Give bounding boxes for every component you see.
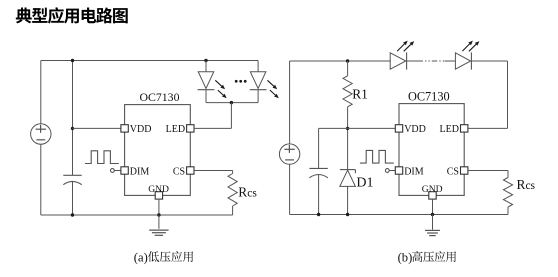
svg-text:DIM: DIM <box>130 166 150 177</box>
svg-text:LED: LED <box>440 124 459 135</box>
svg-text:GND: GND <box>422 184 443 195</box>
svg-text:(b): (b) <box>398 250 413 264</box>
svg-text:(a): (a) <box>134 250 148 264</box>
svg-text:R1: R1 <box>352 87 368 102</box>
svg-text:Rcs: Rcs <box>238 184 257 199</box>
svg-text:CS: CS <box>173 166 185 177</box>
svg-text:GND: GND <box>148 184 169 195</box>
svg-text:Rcs: Rcs <box>517 177 536 192</box>
svg-text:VDD: VDD <box>130 124 152 135</box>
svg-text:LED: LED <box>166 124 185 135</box>
svg-text:DIM: DIM <box>404 166 424 177</box>
svg-text:OC7130: OC7130 <box>140 90 180 104</box>
svg-text:VDD: VDD <box>404 124 426 135</box>
svg-text:OC7130: OC7130 <box>408 89 450 103</box>
svg-text:CS: CS <box>447 166 459 177</box>
svg-text:D1: D1 <box>356 176 373 191</box>
